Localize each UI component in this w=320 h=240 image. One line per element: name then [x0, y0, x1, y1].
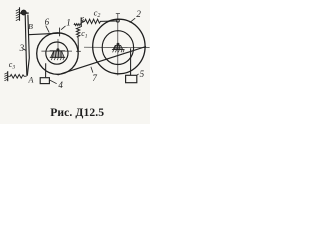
- anchor bar top-middle for springs c1 c2: [81, 17, 84, 27]
- pulley B: [21, 10, 26, 15]
- weight 5: [126, 75, 137, 82]
- cord from spring c1 down to wheel 1 rim: [77, 37, 79, 51]
- label 5 with leader: [137, 74, 139, 76]
- spring c1 vertical: [76, 27, 80, 37]
- spring c3: [8, 75, 27, 79]
- wheel 1 bearing pedestal: [50, 51, 66, 60]
- wheel 1 center lines: [41, 50, 72, 52]
- wheel 2 horizontal center line: [84, 46, 150, 48]
- cord 3 left side from pulley B down to point A: [25, 15, 27, 76]
- svg-text:7: 7: [92, 73, 97, 83]
- svg-text:2: 2: [136, 9, 141, 19]
- spring c2 horizontal: [82, 19, 116, 23]
- weight 4: [40, 78, 49, 84]
- svg-text:1: 1: [66, 17, 71, 27]
- svg-text:5: 5: [140, 69, 145, 79]
- wheel 1 axle dot: [56, 48, 59, 51]
- cord 6 from B-cord to wheel 1 apex: [28, 33, 59, 35]
- belt cord 7 from wheel 1 bottom to wheel 2 rim: [58, 47, 146, 75]
- wheel 2 axle dot: [117, 43, 120, 46]
- cord right side from pulley B down to point A: [27, 15, 29, 76]
- small dense zigzag left of anchor bar: [74, 24, 81, 26]
- wheel 1 outer rim: [37, 33, 78, 75]
- wall bracket upper-left: [16, 7, 29, 20]
- wheel 2 outer rim: [93, 19, 145, 74]
- svg-text:3: 3: [19, 43, 25, 53]
- attachment tick at wheel 1 apex: [59, 28, 61, 37]
- wall anchor left for spring c3: [4, 71, 7, 81]
- label 4 with leader: [49, 80, 56, 84]
- wheel 2 bearing pedestal: [112, 45, 125, 52]
- svg-text:1: 1: [85, 34, 88, 40]
- svg-text:4: 4: [58, 80, 63, 90]
- svg-text:Рис. Д12.5: Рис. Д12.5: [50, 106, 104, 119]
- svg-text:6: 6: [45, 17, 50, 27]
- wheel 2 vertical center line with top tick: [117, 13, 119, 75]
- wheel 1 inner rim: [46, 42, 68, 64]
- svg-text:3: 3: [11, 65, 15, 71]
- wheel 2 inner rim: [102, 31, 133, 65]
- svg-text:2: 2: [97, 13, 100, 19]
- svg-text:А: А: [28, 76, 34, 85]
- tick at c1 rim attachment: [76, 50, 81, 52]
- ring at wheel 2 apex: [116, 19, 119, 22]
- cord to weight 4: [45, 63, 47, 77]
- cord to weight 5: [130, 48, 132, 75]
